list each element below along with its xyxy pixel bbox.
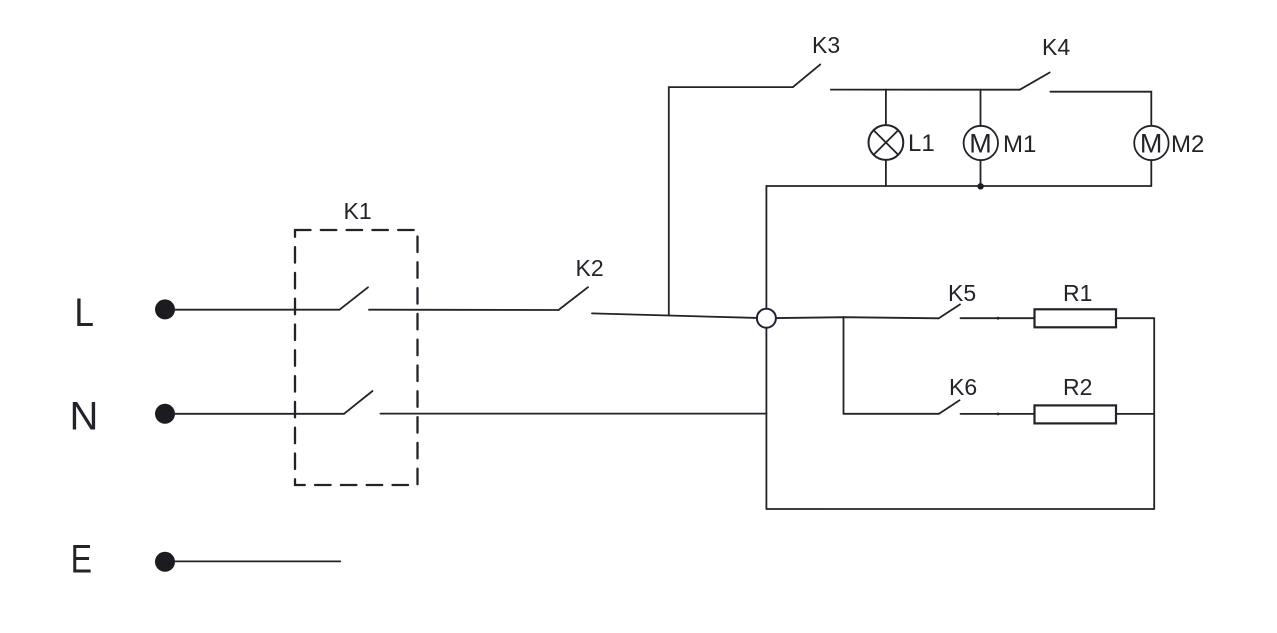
wire N terminal to K1 (173, 413, 344, 415)
wire K1 pole 2 to return bus (381, 413, 767, 415)
wire motor M1 bottom lead (980, 160, 982, 186)
svg-text:M2: M2 (1171, 131, 1204, 158)
switch K1 pole 2 blade (344, 391, 373, 414)
switch K6 blade (939, 400, 960, 414)
wire riser to K3 (669, 87, 793, 315)
wire motor M1 top lead (980, 90, 982, 126)
wire lamp L1 bottom lead (885, 160, 887, 186)
svg-text:N: N (70, 395, 99, 439)
wire bottom rail of lamp/motor group (766, 185, 1151, 187)
svg-text:R2: R2 (1063, 374, 1092, 400)
motor M2 (1134, 126, 1168, 160)
switch K1 pole 1 blade (340, 287, 369, 309)
terminal E (155, 552, 175, 572)
svg-text:E: E (71, 538, 92, 582)
wire right bus vertical (1153, 318, 1155, 509)
motor M1 (964, 126, 998, 160)
joint tick on K5 wire (997, 317, 1000, 320)
wire K5 to R1 (961, 317, 1035, 319)
wire node to K5 branch (766, 317, 938, 318)
terminal L (155, 299, 175, 319)
wire K6 branch drop (843, 317, 845, 414)
svg-text:R1: R1 (1063, 280, 1092, 306)
relay box K1 (dashed) (295, 230, 418, 485)
svg-text:K1: K1 (344, 198, 372, 224)
svg-text:M: M (1140, 129, 1163, 159)
svg-text:K3: K3 (812, 32, 840, 58)
svg-text:K5: K5 (948, 280, 976, 306)
joint tick on K6 wire (997, 413, 1000, 416)
wire lamp L1 top lead (885, 90, 887, 126)
svg-text:M: M (969, 129, 992, 159)
node crossing (open circle) (757, 309, 776, 328)
resistor R1 (1035, 309, 1117, 327)
resistor R2 (1035, 405, 1117, 423)
switch K2 blade (559, 287, 589, 310)
switch K4 blade (1020, 73, 1050, 90)
svg-text:K6: K6 (949, 374, 977, 400)
wire K6 branch horizontal (844, 413, 940, 415)
switch K3 blade (793, 64, 820, 87)
svg-text:K4: K4 (1042, 34, 1070, 60)
wire E stub (174, 560, 340, 562)
svg-text:L: L (74, 291, 94, 335)
wire L terminal to K1 (173, 309, 340, 311)
wire R2 to right bus (1116, 413, 1154, 415)
wire R1 to right bus (1116, 317, 1154, 319)
svg-text:L1: L1 (908, 130, 935, 157)
switch K5 blade (939, 304, 960, 318)
wire K4 to M2 (1050, 92, 1151, 126)
svg-text:K2: K2 (576, 255, 604, 281)
wire K1 pole 1 to K2 (369, 309, 559, 311)
wire bottom return rail (766, 508, 1154, 510)
svg-text:M1: M1 (1003, 131, 1036, 158)
wire K6 to R2 (961, 413, 1035, 415)
wire motor M2 bottom lead (1150, 160, 1152, 186)
junction dot M1 bottom (977, 183, 983, 189)
wire top rail K3 to K4 (831, 89, 1020, 91)
wire K2 to node (592, 313, 766, 318)
terminal N (155, 404, 175, 424)
wire return bus vertical (765, 186, 767, 509)
lamp L1 (869, 125, 904, 160)
